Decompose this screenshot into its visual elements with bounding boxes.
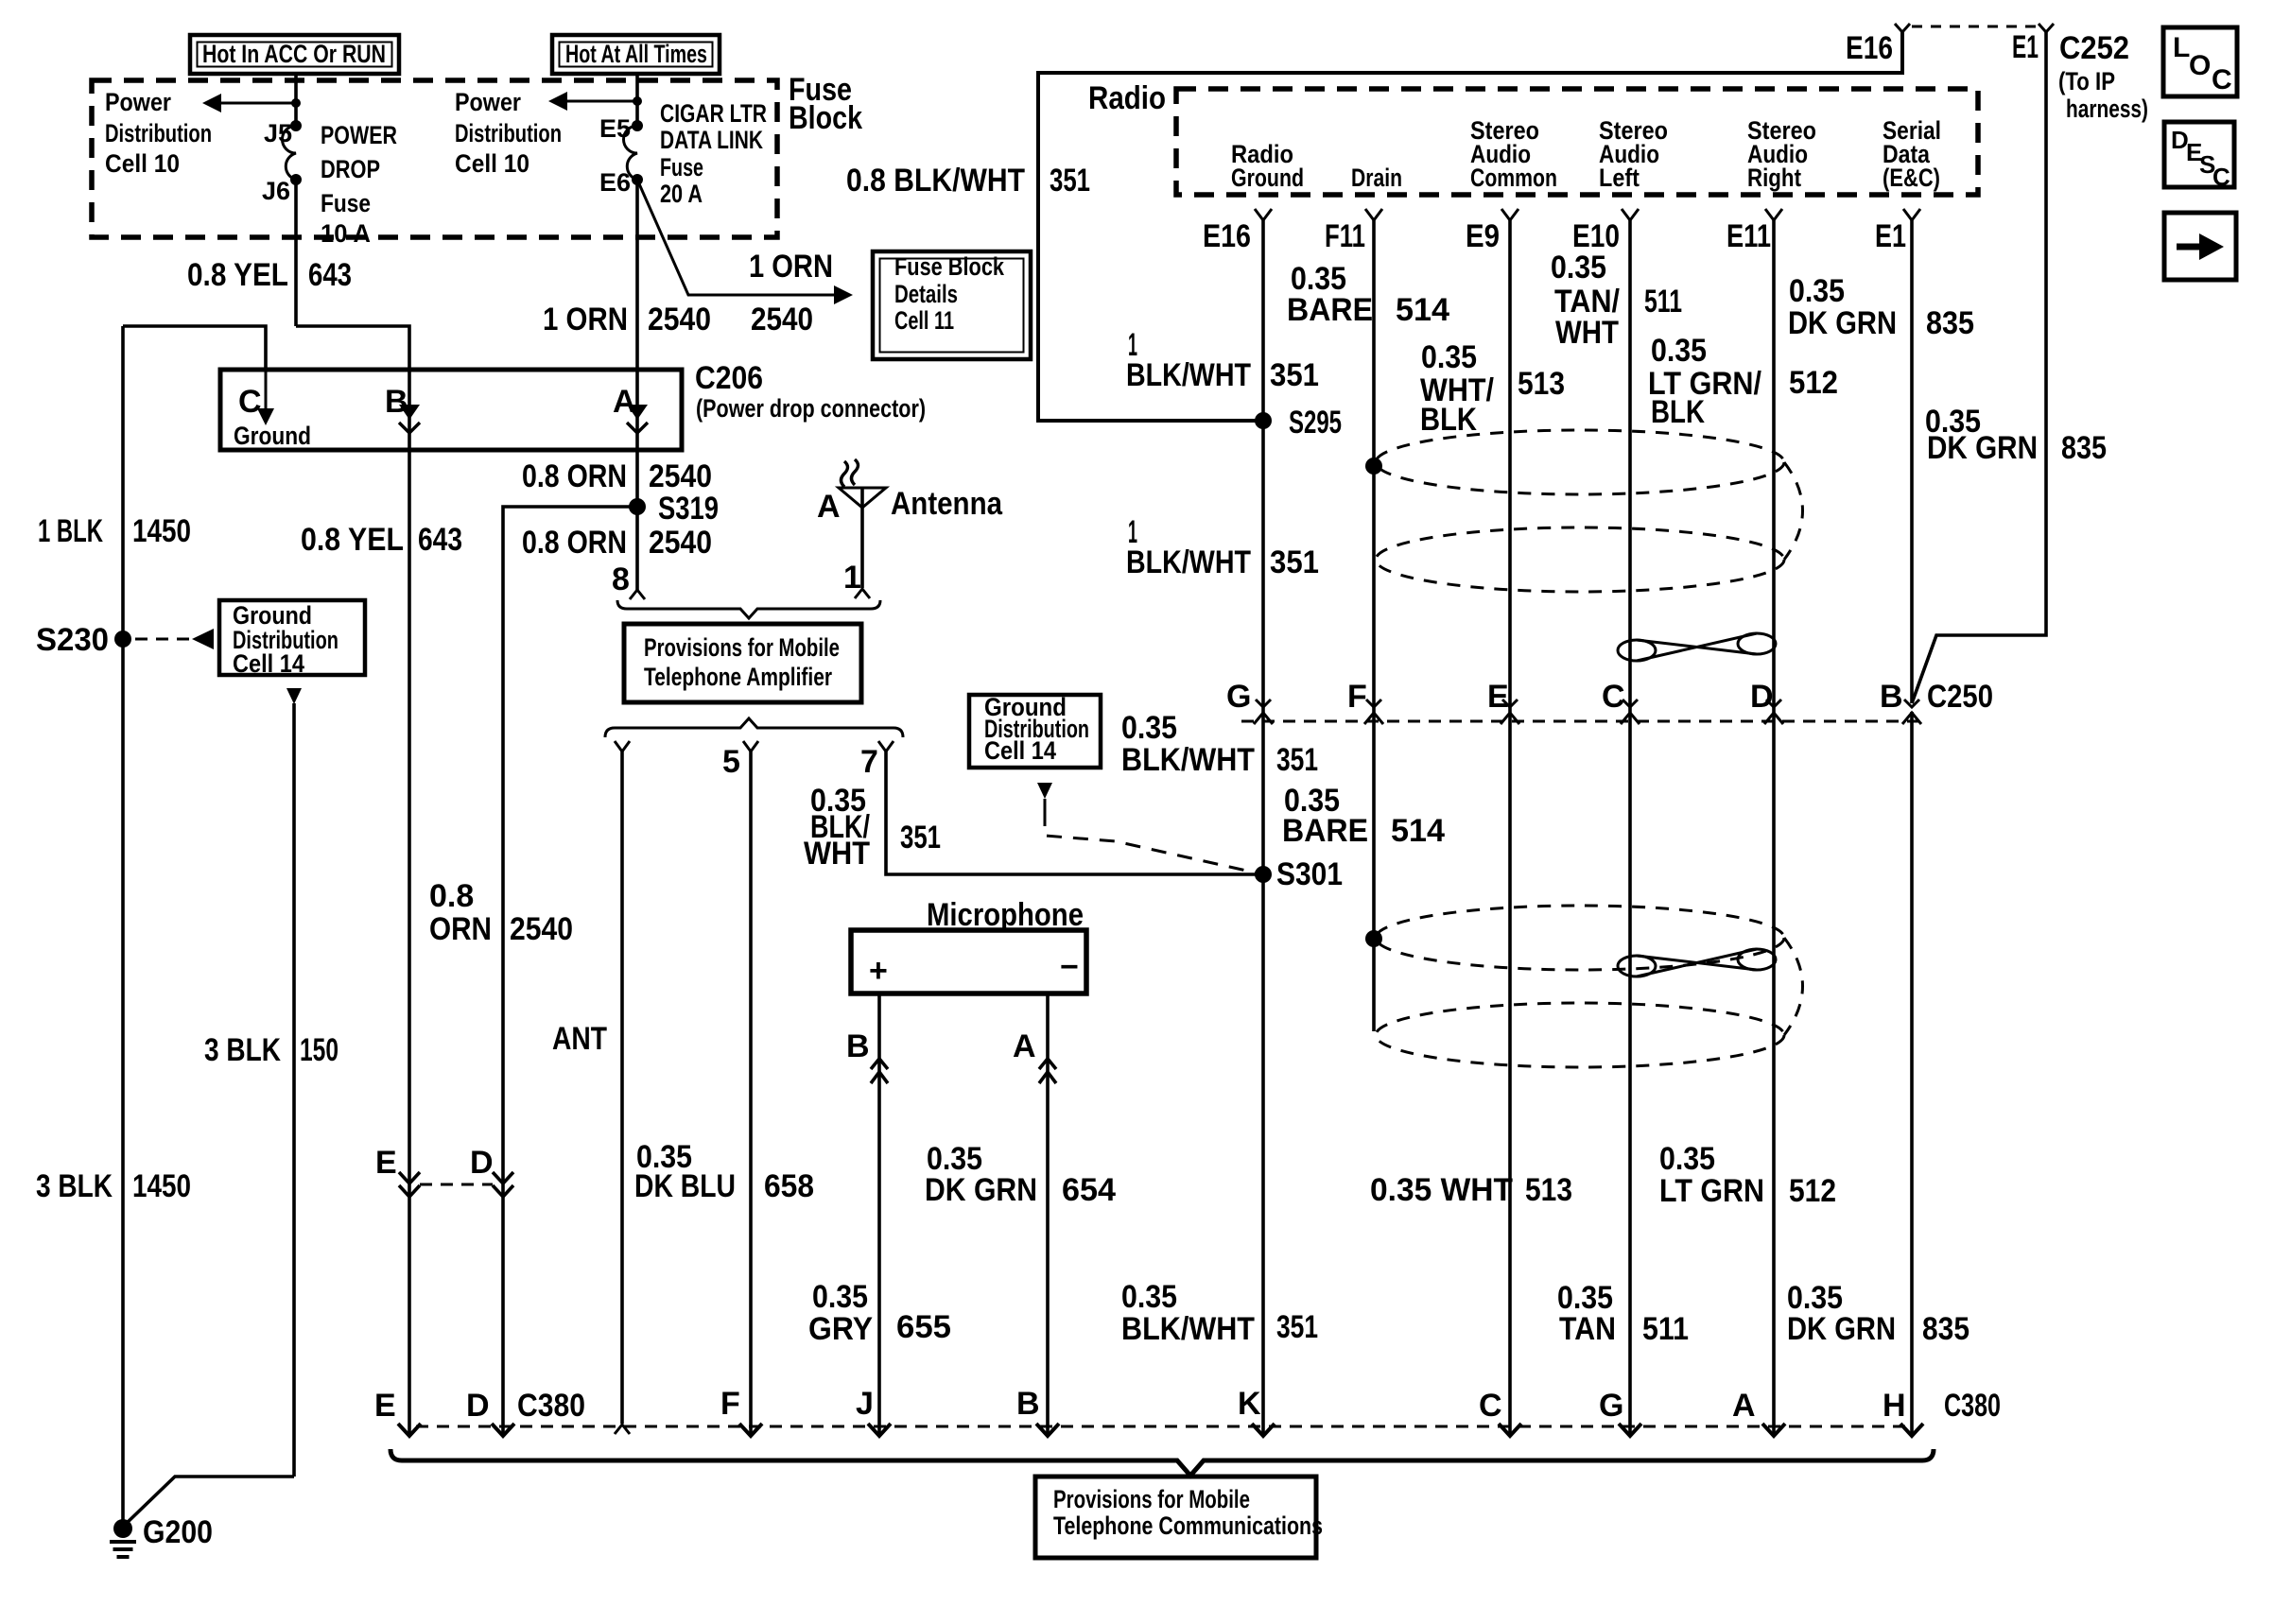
svg-text:1450: 1450 (132, 1168, 191, 1204)
svg-text:Fuse Block: Fuse Block (894, 252, 1005, 281)
svg-text:Common: Common (1470, 164, 1557, 192)
wire arrow to power distribution (left) (202, 94, 296, 112)
svg-text:E1: E1 (2012, 29, 2039, 65)
pin J of C380 (856, 1386, 891, 1436)
svg-text:Power: Power (455, 88, 521, 116)
svg-text:BLK/WHT: BLK/WHT (1126, 544, 1251, 580)
fuse CIGAR LTR DATA LINK 20 A (E5-E6) (599, 114, 643, 197)
label 0.8 ORN 2540 column D (429, 878, 573, 947)
svg-text:514: 514 (1391, 813, 1445, 849)
svg-text:ORN: ORN (429, 911, 492, 947)
svg-text:D: D (470, 1145, 494, 1181)
svg-text:E: E (374, 1388, 396, 1424)
wire serial data from C252 E1 down to C250 B (1912, 32, 2046, 703)
wire 0.8 YEL 643 below C206 (column E) (301, 450, 462, 1435)
svg-text:B: B (385, 384, 408, 420)
shield upper (dashed coil) (1376, 430, 1803, 592)
label 0.35 BLK/WHT 351 below C250 (1121, 710, 1318, 778)
svg-text:1: 1 (843, 560, 861, 596)
pin B of C206 (385, 370, 420, 450)
splice S319 (629, 491, 719, 527)
svg-text:WHT: WHT (804, 836, 870, 872)
wire serial data E1 column (1910, 219, 1914, 703)
svg-text:C: C (2212, 64, 2232, 95)
svg-text:+: + (869, 953, 888, 989)
label 0.35 TAN/WHT 511 (1551, 250, 1682, 351)
svg-text:0.8 ORN: 0.8 ORN (522, 525, 627, 561)
bracket above amplifier provisions (617, 600, 880, 618)
svg-text:DK BLU: DK BLU (634, 1168, 736, 1204)
svg-text:Cell 11: Cell 11 (894, 306, 954, 335)
svg-text:351: 351 (1050, 163, 1090, 199)
svg-text:DK GRN: DK GRN (1927, 430, 2038, 466)
svg-text:0.35: 0.35 (1659, 1141, 1715, 1177)
svg-text:Fuse: Fuse (321, 189, 371, 217)
svg-text:TAN: TAN (1559, 1311, 1616, 1347)
svg-text:S295: S295 (1289, 405, 1342, 441)
pin 8 fork at amplifier provisions (612, 561, 645, 599)
svg-text:BLK/WHT: BLK/WHT (1121, 742, 1255, 778)
splice S295 (1255, 405, 1342, 441)
svg-text:0.8: 0.8 (429, 878, 474, 914)
svg-text:0.35: 0.35 (1651, 333, 1707, 369)
svg-text:Cell 14: Cell 14 (984, 736, 1056, 765)
svg-text:E16: E16 (1846, 30, 1893, 66)
svg-text:10 A: 10 A (321, 219, 371, 248)
pin D of C250 (1750, 679, 1783, 724)
svg-text:0.8 YEL: 0.8 YEL (301, 522, 404, 558)
connector C206 box (220, 360, 926, 450)
svg-text:D: D (1750, 679, 1774, 715)
reference icon box DESC (2164, 122, 2234, 191)
label Fuse Block (789, 72, 862, 136)
svg-text:2540: 2540 (649, 525, 712, 561)
svg-text:E: E (375, 1145, 397, 1181)
svg-text:DATA LINK: DATA LINK (660, 126, 763, 154)
wire ground jog to C206 pin C (123, 326, 266, 370)
connector C250 dashed line (1241, 720, 1919, 723)
svg-text:B: B (1016, 1386, 1040, 1422)
svg-text:513: 513 (1525, 1172, 1572, 1208)
svg-text:351: 351 (1270, 357, 1319, 393)
svg-text:C380: C380 (517, 1388, 585, 1424)
svg-text:Fuse: Fuse (660, 153, 703, 181)
pin G of C250 (1226, 679, 1273, 724)
svg-text:L: L (2173, 32, 2190, 63)
svg-text:BLK/WHT: BLK/WHT (1126, 357, 1251, 393)
svg-text:E11: E11 (1726, 218, 1771, 254)
bracket below amplifier provisions (605, 718, 903, 737)
label 1 BLK/WHT 351 (upper) (1126, 327, 1319, 393)
svg-text:O: O (2189, 50, 2211, 81)
svg-text:E1: E1 (1875, 218, 1906, 254)
svg-text:658: 658 (764, 1168, 814, 1204)
svg-text:3 BLK: 3 BLK (204, 1032, 281, 1068)
svg-text:A: A (1013, 1028, 1036, 1064)
svg-text:H: H (1883, 1388, 1906, 1424)
pin E10 fork (1572, 209, 1639, 254)
label POWER DROP Fuse 10 A (321, 121, 397, 248)
wire jog 3 BLK to G200 (123, 1477, 294, 1527)
label 0.35 LT GRN/BLK 512 (1648, 333, 1838, 430)
svg-text:351: 351 (1276, 742, 1318, 778)
label box Fuse Block Details Cell 11 (873, 251, 1031, 359)
svg-text:F11: F11 (1325, 218, 1365, 254)
svg-text:BARE: BARE (1287, 292, 1373, 328)
svg-text:C252: C252 (2059, 30, 2129, 66)
dashed reference arrow S230 to ground distribution (135, 629, 214, 649)
svg-text:BLK/WHT: BLK/WHT (1121, 1311, 1255, 1347)
svg-text:(Power drop connector): (Power drop connector) (696, 394, 926, 423)
svg-text:B: B (1880, 679, 1903, 715)
svg-text:0.8 ORN: 0.8 ORN (522, 458, 627, 494)
svg-text:LT GRN: LT GRN (1659, 1173, 1764, 1209)
svg-text:0.8 YEL: 0.8 YEL (187, 257, 288, 293)
svg-text:C206: C206 (695, 360, 763, 396)
svg-text:512: 512 (1789, 365, 1838, 401)
pin E1 fork (1875, 209, 1920, 254)
svg-text:harness): harness) (2066, 95, 2148, 123)
svg-text:CIGAR LTR: CIGAR LTR (660, 99, 767, 128)
label CIGAR LTR DATA LINK Fuse 20 A (660, 99, 767, 208)
antenna lead end fork at C380 (0, 0, 1, 1)
svg-text:0.35: 0.35 (1121, 1279, 1177, 1315)
dashed reference from ground distribution to S301 (1037, 783, 1263, 874)
twisted pair symbol upper (1618, 633, 1776, 661)
svg-text:0.35: 0.35 (1551, 250, 1606, 285)
wire radio ground E16 column (1261, 219, 1265, 1435)
pin D of C380 (466, 1388, 585, 1436)
pin G of C380 (1599, 1388, 1641, 1436)
reference icon box arrow (2164, 213, 2236, 280)
pin name Serial Data (E&C) (1883, 116, 1941, 192)
wire jog YEL to C206 pin B (296, 326, 409, 370)
svg-text:835: 835 (1926, 305, 1974, 341)
svg-text:E: E (1487, 679, 1509, 715)
svg-text:Provisions for Mobile: Provisions for Mobile (644, 633, 840, 662)
wire 1 BLK 1450 left vertical to G200 (36, 326, 191, 1529)
pin name Stereo Audio Common (1470, 116, 1557, 192)
svg-text:Left: Left (1599, 164, 1640, 192)
splice S230 (36, 622, 131, 658)
svg-text:Cell 14: Cell 14 (233, 649, 304, 678)
fuse POWER DROP 10 A (J5-J6) (262, 119, 302, 205)
pin A of C380 (1732, 1388, 1785, 1436)
wire stereo audio right E11 column (1772, 219, 1776, 1435)
svg-text:GRY: GRY (808, 1311, 873, 1347)
svg-text:Right: Right (1747, 164, 1801, 192)
label 0.35 LT GRN 512 column A (1659, 1141, 1836, 1209)
svg-text:1 BLK: 1 BLK (38, 513, 103, 549)
svg-text:511: 511 (1644, 284, 1682, 320)
svg-text:J6: J6 (262, 177, 290, 205)
svg-text:(E&C): (E&C) (1883, 164, 1940, 192)
twisted pair symbol lower (1618, 949, 1776, 976)
label box Provisions for Mobile Telephone Amplifier (624, 624, 861, 702)
svg-text:835: 835 (2061, 430, 2107, 466)
label 0.35 WHT 513 column C (1370, 1172, 1572, 1208)
svg-text:643: 643 (308, 257, 352, 293)
svg-text:0.35: 0.35 (812, 1279, 868, 1315)
svg-text:BLK: BLK (1651, 394, 1705, 430)
svg-text:J5: J5 (264, 119, 292, 147)
wire 5 / 0.35 DK BLU 658 (634, 741, 814, 1435)
svg-text:654: 654 (1062, 1172, 1116, 1208)
svg-text:E5: E5 (599, 114, 631, 143)
svg-text:BARE: BARE (1282, 813, 1368, 849)
node power distribution tap right (633, 96, 642, 106)
label 0.35 BARE 514 below C250 (1282, 783, 1445, 849)
svg-text:ANT: ANT (552, 1021, 607, 1057)
svg-text:351: 351 (1270, 544, 1319, 580)
node drain to lower shield (1365, 930, 1382, 947)
label box Hot In ACC Or RUN (190, 35, 399, 74)
wire from Hot At All Times box to fuse E5 (635, 74, 639, 126)
svg-text:835: 835 (1922, 1311, 1969, 1347)
wire drain F11 column (1372, 219, 1376, 1031)
svg-text:Block: Block (789, 100, 862, 136)
svg-text:Ground: Ground (1231, 164, 1304, 192)
antenna symbol (817, 459, 1003, 598)
pin C of C380 (1479, 1388, 1521, 1436)
svg-text:BLK: BLK (1420, 402, 1477, 438)
svg-text:655: 655 (896, 1309, 951, 1345)
svg-text:Drain: Drain (1351, 164, 1402, 192)
svg-text:E6: E6 (599, 168, 631, 197)
label 0.35 GRY 655 (808, 1279, 951, 1347)
pin B of C380 (1016, 1386, 1059, 1436)
connector C380 mid pins E and D (upper row) (375, 1145, 513, 1197)
svg-text:1 ORN: 1 ORN (543, 302, 628, 337)
svg-text:20 A: 20 A (660, 180, 703, 208)
svg-text:C380: C380 (1944, 1388, 2001, 1424)
svg-text:Cell 10: Cell 10 (105, 149, 180, 178)
svg-text:8: 8 (612, 561, 630, 597)
wire stereo audio common E9 column (1508, 219, 1512, 1435)
svg-text:0.35: 0.35 (1121, 710, 1177, 746)
wire 3 BLK 150 from ground distribution down (204, 688, 338, 1477)
svg-text:Antenna: Antenna (891, 486, 1003, 522)
wire microphone - (A) (1013, 993, 1056, 1435)
svg-text:DROP: DROP (321, 155, 380, 183)
svg-text:0.35 WHT: 0.35 WHT (1370, 1172, 1513, 1208)
svg-text:Radio: Radio (1088, 80, 1166, 116)
wire arrow to power distribution (right) (548, 92, 637, 111)
pin name Stereo Audio Left (1599, 116, 1668, 192)
svg-text:G: G (1226, 679, 1251, 715)
pin C of C250 (1602, 679, 1640, 724)
svg-text:3 BLK: 3 BLK (36, 1168, 113, 1204)
svg-text:C: C (2212, 163, 2230, 191)
pin E16 fork (1203, 209, 1272, 254)
svg-text:A: A (613, 384, 636, 420)
node drain to upper shield (1365, 458, 1382, 475)
svg-text:E9: E9 (1466, 218, 1500, 254)
svg-text:A: A (817, 489, 841, 525)
label 1 BLK/WHT 351 (lower) (1126, 514, 1319, 580)
wire 7 / 0.35 BLK/WHT 351 to S301 (804, 741, 1263, 874)
label 0.35 DK GRN 835 column H (1787, 1280, 1969, 1347)
svg-text:513: 513 (1518, 366, 1565, 402)
svg-text:0.35: 0.35 (1789, 273, 1845, 309)
radio connector dashed box (1176, 89, 1978, 195)
label Power Distribution Cell 10 (left) (105, 88, 212, 178)
svg-text:5: 5 (722, 744, 740, 780)
svg-text:511: 511 (1642, 1311, 1689, 1347)
label 0.35 WHT/BLK 513 (1420, 339, 1565, 438)
svg-text:0.35: 0.35 (1421, 339, 1477, 375)
svg-text:Distribution: Distribution (455, 119, 562, 147)
svg-text:514: 514 (1396, 292, 1449, 328)
microphone box (851, 930, 1086, 993)
svg-text:2540: 2540 (751, 302, 813, 337)
label 0.35 DK GRN 835 on C252 wire (1925, 404, 2107, 466)
svg-text:F: F (720, 1386, 740, 1422)
svg-text:Provisions for Mobile: Provisions for Mobile (1053, 1485, 1250, 1513)
label 0.35 TAN 511 column G (1557, 1280, 1689, 1347)
pin B of C250 (1880, 679, 1993, 724)
label box Hot At All Times (552, 35, 720, 74)
bracket above communications provisions (390, 1449, 1934, 1476)
reference icon box LOC (2163, 27, 2237, 96)
label 0.35 BARE 514 (upper) (1287, 261, 1449, 328)
pin name Stereo Audio Right (1747, 116, 1816, 192)
wire stereo audio left E10 column (1628, 219, 1632, 1435)
svg-text:2540: 2540 (510, 911, 573, 947)
svg-text:Ground: Ground (234, 422, 311, 450)
pin E of C250 (1487, 679, 1519, 724)
svg-text:Telephone Communications: Telephone Communications (1053, 1512, 1323, 1540)
svg-text:7: 7 (860, 744, 878, 780)
svg-text:512: 512 (1789, 1173, 1836, 1209)
svg-text:C: C (1479, 1388, 1502, 1424)
label Power Distribution Cell 10 (right) (455, 88, 562, 178)
svg-text:Hot In ACC Or RUN: Hot In ACC Or RUN (202, 40, 386, 68)
svg-text:D: D (466, 1388, 490, 1424)
label 0.35 BLK/WHT 351 column K (1121, 1279, 1318, 1347)
svg-text:1 ORN: 1 ORN (749, 249, 833, 285)
pin F of C250 (1347, 679, 1383, 724)
splice S301 (1255, 856, 1343, 892)
svg-text:(To IP: (To IP (2058, 67, 2115, 95)
svg-text:J: J (856, 1386, 874, 1422)
wire branch S319 to column D (503, 507, 637, 1435)
label box Ground Distribution Cell 14 (right) (969, 693, 1101, 768)
pin C of C206 with ground arrow (234, 370, 311, 450)
connector C252 top right (1846, 24, 2148, 123)
fuse block dashed outline (92, 80, 777, 237)
svg-text:G: G (1599, 1388, 1623, 1424)
svg-text:0.8 BLK/WHT: 0.8 BLK/WHT (846, 163, 1025, 199)
svg-text:Power: Power (105, 88, 171, 116)
label box Ground Distribution Cell 14 (left) (219, 600, 365, 678)
svg-text:F: F (1347, 679, 1367, 715)
pin E9 fork (1466, 209, 1518, 254)
svg-text:Telephone Amplifier: Telephone Amplifier (644, 663, 832, 691)
pin E of C380 (374, 1388, 421, 1436)
ground G200 (110, 1514, 213, 1557)
svg-text:−: − (1060, 949, 1079, 985)
svg-text:WHT: WHT (1555, 315, 1619, 351)
wire 0.8 ORN 2540 below C206 pin A (522, 450, 712, 590)
radio case outline and ground lead to C252 E16 (1038, 24, 1910, 421)
wire 0.8 YEL 643 from J6 down (187, 180, 352, 326)
svg-text:A: A (1732, 1388, 1756, 1424)
wire from Hot In ACC box to fuse J5 (294, 74, 298, 126)
svg-text:S301: S301 (1276, 856, 1343, 892)
svg-text:K: K (1238, 1386, 1261, 1422)
svg-text:Details: Details (894, 280, 958, 308)
svg-text:Hot At All Times: Hot At All Times (565, 40, 707, 68)
svg-text:643: 643 (418, 522, 462, 558)
pin name Radio Ground (1231, 140, 1304, 192)
svg-text:Distribution: Distribution (105, 119, 212, 147)
svg-text:DK GRN: DK GRN (1787, 1311, 1896, 1347)
label 0.8 BLK/WHT 351 radio case wire (846, 163, 1090, 199)
svg-text:351: 351 (1276, 1309, 1318, 1345)
svg-text:E16: E16 (1203, 218, 1251, 254)
pin F of C380 (720, 1386, 762, 1436)
label box Provisions for Mobile Telephone Communications (1035, 1477, 1323, 1558)
svg-text:1450: 1450 (132, 513, 191, 549)
shield lower (dashed coil) (1376, 906, 1803, 1067)
node power distribution tap left (291, 98, 301, 108)
svg-text:S319: S319 (658, 491, 719, 527)
wire ANT antenna lead (552, 741, 630, 1434)
wire serial data B to H column (1910, 712, 1914, 1435)
label 0.35 DK GRN 654 (925, 1141, 1116, 1208)
svg-text:150: 150 (300, 1032, 338, 1068)
wire 1 ORN 2540 vertical from E6 to C206 A (543, 180, 711, 370)
svg-text:S230: S230 (36, 622, 109, 658)
svg-text:DK GRN: DK GRN (925, 1172, 1037, 1208)
pin K of C380 (1238, 1386, 1275, 1436)
svg-text:DK GRN: DK GRN (1788, 305, 1897, 341)
svg-text:POWER: POWER (321, 121, 397, 149)
wire 2540 branch to fuse block details (637, 180, 853, 337)
svg-text:Cell 10: Cell 10 (455, 149, 529, 178)
svg-text:2540: 2540 (649, 458, 712, 494)
svg-text:C250: C250 (1927, 679, 1993, 715)
label 0.35 DK GRN 835 E1 wire (1788, 273, 1974, 341)
svg-text:G200: G200 (143, 1514, 213, 1550)
connector C380 dashed line (416, 1425, 1910, 1428)
svg-text:351: 351 (900, 820, 941, 855)
svg-text:C: C (238, 384, 262, 420)
pin E11 fork (1726, 209, 1782, 254)
svg-text:B: B (846, 1028, 870, 1064)
svg-text:2540: 2540 (648, 302, 711, 337)
pin H of C380 (1883, 1388, 2001, 1436)
wire microphone + (B) (846, 993, 888, 1435)
svg-text:C: C (1602, 679, 1625, 715)
pin F11 fork (1325, 209, 1382, 254)
pin A of C206 (613, 370, 648, 450)
